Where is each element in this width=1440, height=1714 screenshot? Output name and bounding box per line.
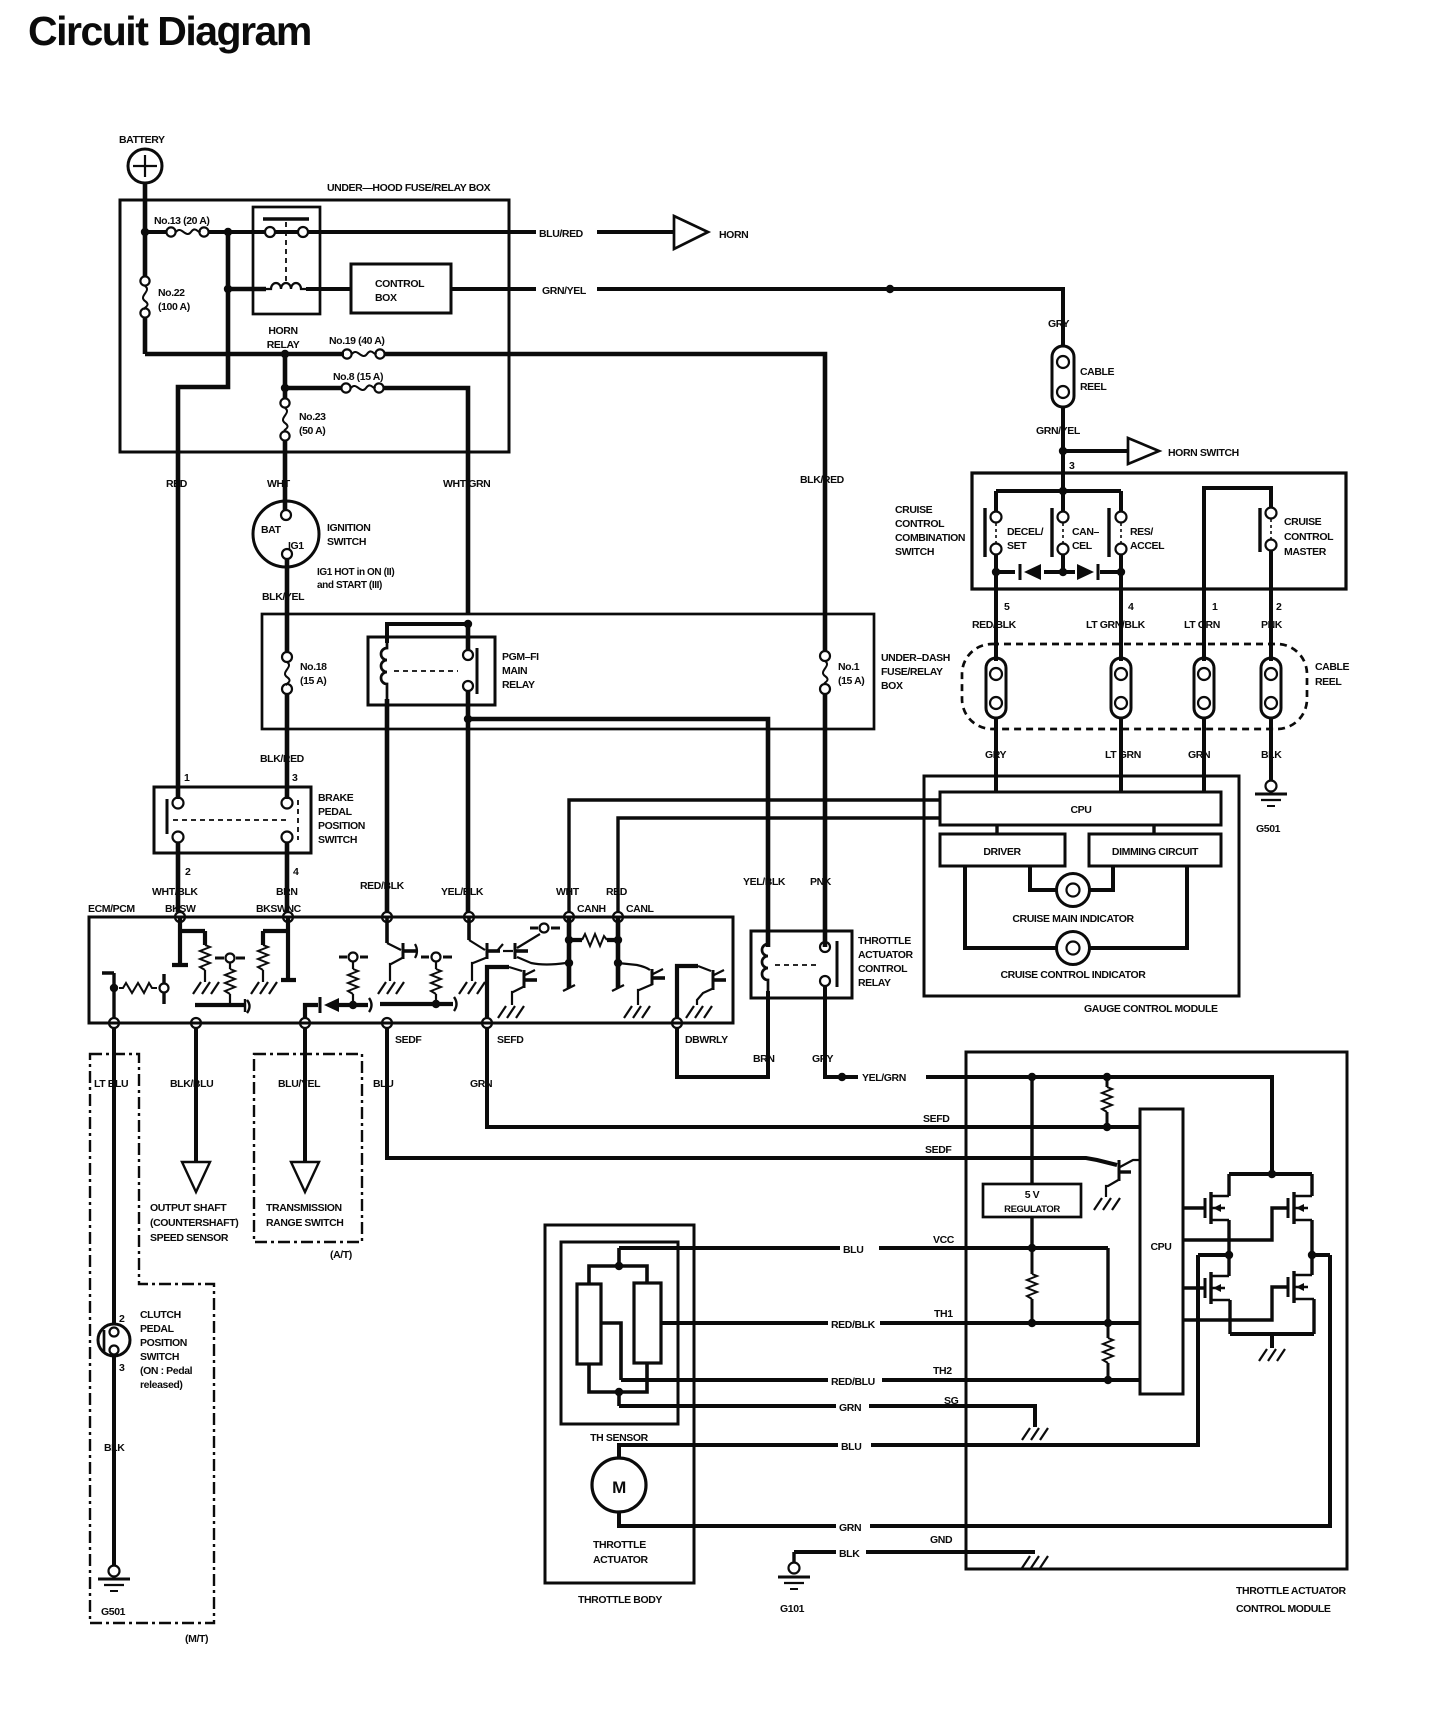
wire RED branch [178, 289, 228, 799]
wire SEFD from ecm [487, 1028, 1140, 1127]
ecm left input network [102, 973, 169, 1018]
wire BLU motor [619, 1255, 1198, 1458]
svg-text:(50 A): (50 A) [299, 425, 325, 437]
wire relay contact YEL/BLK down [466, 691, 471, 912]
label under-dash fuse/relay box [881, 652, 950, 692]
svg-text:RED/BLK: RED/BLK [831, 1319, 876, 1331]
svg-text:RELAY: RELAY [502, 679, 535, 691]
label cable reel [1315, 661, 1350, 688]
mosfet Q8 upper left [1205, 1174, 1229, 1255]
svg-text:ACTUATOR: ACTUATOR [593, 1554, 649, 1566]
junction diode node [349, 1001, 357, 1009]
svg-text:WHT: WHT [267, 478, 291, 490]
svg-text:TH SENSOR: TH SENSOR [590, 1432, 648, 1444]
svg-text:SEDF: SEDF [395, 1034, 422, 1046]
svg-text:RES/: RES/ [1130, 526, 1153, 538]
svg-text:HORN SWITCH: HORN SWITCH [1168, 447, 1239, 459]
wire gate LL [1183, 1286, 1205, 1289]
svg-text:3: 3 [1069, 460, 1075, 472]
resistor terminal sefd pull [380, 953, 457, 1012]
wire GRN SG [619, 1406, 1035, 1427]
svg-text:BOX: BOX [881, 680, 903, 692]
CPU gauge [940, 792, 1221, 825]
svg-text:GRN: GRN [1188, 749, 1210, 761]
svg-text:2: 2 [185, 866, 191, 878]
svg-text:4: 4 [293, 866, 299, 878]
A/T dash-dot box [254, 1054, 362, 1242]
cruise main indicator lamp [1012, 874, 1134, 926]
wire battery bus to No.19 [145, 352, 344, 357]
CPU throttle module [1140, 1109, 1183, 1394]
node YEL/BLK [464, 912, 474, 922]
wire driver to control indicator [965, 866, 1057, 948]
svg-text:REEL: REEL [1315, 676, 1342, 688]
transistor Q3 canh driver [503, 934, 566, 965]
svg-text:G101: G101 [780, 1603, 805, 1615]
cruise control indicator lamp [1001, 932, 1147, 982]
fuse No.23 (50 A) [280, 398, 326, 510]
junction th1 right [1104, 1319, 1112, 1327]
clutch pedal position switch S3 [98, 1309, 193, 1391]
svg-text:TH2: TH2 [933, 1365, 952, 1377]
svg-text:4: 4 [1128, 601, 1134, 613]
node SEFD [482, 1018, 492, 1028]
ECM/PCM box [88, 903, 733, 1023]
svg-text:UNDER—HOOD FUSE/RELAY BOX: UNDER—HOOD FUSE/RELAY BOX [327, 182, 491, 194]
diode D2 right [1077, 564, 1098, 580]
diode D3 ecm [305, 997, 372, 1018]
wire GRN motor [619, 1255, 1330, 1526]
svg-text:No.8 (15 A): No.8 (15 A) [333, 371, 383, 383]
svg-text:CONTROL: CONTROL [895, 518, 945, 530]
svg-text:LT BLU: LT BLU [94, 1078, 128, 1090]
svg-text:GRN: GRN [839, 1402, 861, 1414]
resistor sefd pullup [1102, 1077, 1112, 1127]
wire BLK to ground [112, 1356, 116, 1566]
TH sensor pot right [634, 1283, 661, 1363]
junction bridge left [1225, 1251, 1233, 1259]
wire hbridge top rail [1229, 1172, 1312, 1176]
wire dimming to control indicator [1089, 866, 1187, 948]
mosfet Q11 lower right [1288, 1255, 1314, 1334]
junction canl top [614, 936, 622, 944]
resistor th1-th2 [1103, 1323, 1113, 1380]
svg-text:RELAY: RELAY [858, 977, 891, 989]
svg-text:OUTPUT SHAFT: OUTPUT SHAFT [150, 1202, 227, 1214]
svg-text:BLU: BLU [841, 1441, 861, 1453]
svg-text:BLK/YEL: BLK/YEL [262, 591, 305, 603]
wire GRN/YEL control box to cable reel [451, 289, 1063, 346]
wire BLK gnd [794, 1550, 1035, 1554]
svg-text:DRIVER: DRIVER [983, 846, 1021, 858]
svg-text:YEL/GRN: YEL/GRN [862, 1072, 906, 1084]
svg-text:CLUTCH: CLUTCH [140, 1309, 181, 1321]
svg-text:(A/T): (A/T) [330, 1249, 352, 1261]
wire No.8 branch [283, 354, 288, 398]
svg-text:HORN: HORN [268, 325, 297, 337]
wire to horn switch [1063, 449, 1128, 453]
wire bridge right node [1312, 1253, 1330, 1257]
svg-text:RED: RED [606, 886, 628, 898]
node CANL [613, 912, 623, 922]
wire sensor bottom bus [589, 1363, 647, 1406]
junction bus dots [992, 568, 1000, 576]
svg-text:REEL: REEL [1080, 381, 1107, 393]
transistor Q4 canl driver [618, 963, 665, 1018]
junction sefd resistor [432, 1000, 440, 1008]
svg-text:LT GRN: LT GRN [1184, 619, 1220, 631]
svg-text:PEDAL: PEDAL [140, 1323, 175, 1335]
svg-text:CONTROL: CONTROL [1284, 531, 1334, 543]
wire SEDF from ecm [387, 1028, 1117, 1165]
svg-text:IGNITION: IGNITION [327, 522, 370, 534]
svg-text:released): released) [140, 1379, 183, 1391]
fuse No.19 (40 A) [329, 335, 825, 947]
svg-text:RED: RED [166, 478, 188, 490]
svg-text:SEFD: SEFD [923, 1113, 950, 1125]
mosfet Q10 lower left [1205, 1255, 1230, 1334]
svg-text:G501: G501 [101, 1606, 126, 1618]
wire lower bus [996, 554, 1121, 572]
svg-text:LT GRN: LT GRN [1105, 749, 1141, 761]
svg-text:RED/BLK: RED/BLK [972, 619, 1017, 631]
DBWRLY transistor Q6 [677, 966, 726, 1018]
throttle actuator control module box [966, 1052, 1347, 1615]
svg-text:CRUISE: CRUISE [1284, 516, 1322, 528]
svg-text:YEL/BLK: YEL/BLK [743, 876, 786, 888]
transistor Q2 yel/blk [459, 917, 503, 994]
node BKSWNC [283, 912, 293, 922]
ground G501 left [98, 1566, 130, 1619]
node BKSW [175, 912, 185, 922]
svg-text:BLK/RED: BLK/RED [800, 474, 845, 486]
svg-text:BRAKE: BRAKE [318, 792, 354, 804]
svg-text:1: 1 [184, 772, 190, 784]
svg-text:SWITCH: SWITCH [318, 834, 357, 846]
PGM-FI main relay U2 [368, 637, 539, 705]
junction sensor top [615, 1262, 623, 1270]
wire hbridge bottom rail [1230, 1334, 1314, 1348]
svg-text:BLU/YEL: BLU/YEL [278, 1078, 321, 1090]
node RED/BLK [382, 912, 392, 922]
wire pin2 PNK [1269, 550, 1273, 661]
junction bridge right [1308, 1251, 1316, 1259]
svg-text:5: 5 [1004, 601, 1010, 613]
svg-text:RED/BLU: RED/BLU [831, 1376, 875, 1388]
svg-text:THROTTLE BODY: THROTTLE BODY [578, 1594, 662, 1606]
under-dash fuse/relay box dashed [962, 644, 1307, 729]
throttle body box [545, 1225, 694, 1606]
junction canh mid [565, 959, 573, 967]
node DBWRLY [672, 1018, 682, 1028]
under-hood fuse/relay box [120, 182, 509, 452]
svg-text:SEFD: SEFD [497, 1034, 524, 1046]
svg-text:PNK: PNK [810, 876, 832, 888]
5V regulator [983, 1184, 1081, 1217]
wire gate UL [1183, 1206, 1205, 1209]
svg-text:(ON : Pedal: (ON : Pedal [140, 1365, 193, 1377]
svg-text:GND: GND [930, 1534, 953, 1546]
svg-text:(COUNTERSHAFT): (COUNTERSHAFT) [150, 1217, 238, 1229]
M/T dash-dot box [90, 1054, 214, 1623]
wire BLK to G501 [1269, 718, 1273, 780]
svg-text:No.18: No.18 [300, 661, 327, 673]
svg-text:IG1 HOT in ON (II): IG1 HOT in ON (II) [317, 567, 394, 578]
svg-text:CRUISE: CRUISE [895, 504, 933, 516]
svg-text:2: 2 [119, 1313, 125, 1325]
brake pedal position switch S2 [154, 787, 365, 853]
svg-text:No.1: No.1 [838, 661, 860, 673]
fuse No.8 (15 A) [285, 371, 468, 614]
svg-text:No.22: No.22 [158, 287, 185, 299]
pullup terminal q3 [530, 924, 560, 933]
transistor Q7 sedf input [1094, 1160, 1140, 1210]
svg-text:DBWRLY: DBWRLY [685, 1034, 728, 1046]
svg-text:IG1: IG1 [288, 540, 304, 552]
svg-text:CRUISE CONTROL INDICATOR: CRUISE CONTROL INDICATOR [1001, 969, 1147, 981]
svg-text:BRN: BRN [753, 1053, 775, 1065]
ground G101 [778, 1552, 810, 1615]
wire coil to control box [306, 287, 351, 291]
wire LT GRN to CPU [1119, 718, 1123, 792]
svg-text:RELAY: RELAY [267, 339, 300, 351]
junction canl mid [614, 959, 622, 967]
wire RED CANL riser [618, 818, 940, 912]
ignition switch [253, 501, 370, 567]
junction coil node [224, 285, 232, 293]
wire BLU/YEL to range switch [303, 1028, 307, 1162]
transmission range switch arrow [266, 1162, 343, 1229]
svg-text:and START (III): and START (III) [317, 580, 382, 591]
junction battery node [141, 228, 149, 236]
junction left [110, 984, 118, 992]
svg-text:SG: SG [944, 1395, 959, 1407]
junction YEL/BLK branch [464, 715, 472, 723]
wire YEL/BLK branch to throttle relay [468, 719, 768, 947]
note IG1 HOT [317, 567, 394, 591]
svg-text:BLU: BLU [843, 1244, 863, 1256]
wire dimming to main indicator [1089, 866, 1113, 890]
svg-text:(100 A): (100 A) [158, 301, 190, 313]
svg-text:BLK: BLK [1261, 749, 1282, 761]
node ecm bottom blk/blu [191, 1018, 201, 1028]
svg-text:CABLE: CABLE [1315, 661, 1350, 673]
svg-text:POSITION: POSITION [318, 820, 365, 832]
svg-text:CONTROL: CONTROL [375, 278, 425, 290]
svg-text:SWITCH: SWITCH [895, 546, 934, 558]
svg-text:REGULATOR: REGULATOR [1004, 1204, 1060, 1215]
svg-text:FUSE/RELAY: FUSE/RELAY [881, 666, 943, 678]
wire to horn relay coil [228, 232, 266, 289]
svg-text:BLK/BLU: BLK/BLU [170, 1078, 213, 1090]
wire GRN/YEL cable reel to horn switch node [1061, 407, 1065, 473]
svg-text:BKSW: BKSW [165, 903, 196, 915]
wire BRN pin4 to ECM [285, 842, 290, 912]
svg-text:(M/T): (M/T) [185, 1633, 208, 1645]
wire WHT/BLK pin2 to ECM [176, 842, 181, 912]
svg-text:LT GRN/BLK: LT GRN/BLK [1086, 619, 1146, 631]
wire GRY relay contact down [825, 986, 858, 1077]
svg-text:DIMMING CIRCUIT: DIMMING CIRCUIT [1112, 846, 1199, 858]
switch CAN-CEL [1052, 508, 1100, 557]
svg-text:BAT: BAT [261, 524, 282, 536]
transistor Q1 red/blk [378, 917, 417, 994]
svg-text:(15 A): (15 A) [838, 675, 864, 687]
wire GRY to CPU [994, 718, 998, 792]
svg-text:CANH: CANH [577, 903, 606, 915]
driver block [940, 834, 1065, 866]
switch RES/ACCEL [1109, 508, 1165, 557]
svg-text:YEL/BLK: YEL/BLK [441, 886, 484, 898]
wire pin5 RED/BLK [994, 572, 998, 661]
ground module gnd [1022, 1556, 1048, 1568]
BKSW internal branch [172, 917, 219, 994]
dimming circuit block [1089, 834, 1221, 866]
BKSWNC internal branch [251, 917, 296, 994]
svg-text:COMBINATION: COMBINATION [895, 532, 965, 544]
svg-text:GAUGE CONTROL MODULE: GAUGE CONTROL MODULE [1084, 1003, 1218, 1015]
svg-text:SEDF: SEDF [925, 1144, 952, 1156]
svg-text:CEL: CEL [1072, 540, 1093, 552]
wire CANH internal [563, 917, 575, 991]
svg-text:GRN/YEL: GRN/YEL [1036, 425, 1081, 437]
svg-text:WHT/GRN: WHT/GRN [443, 478, 490, 490]
junction yel/grn resistor [1103, 1073, 1111, 1081]
wire RED/BLK TH1 [661, 1321, 1140, 1325]
svg-text:PGM–FI: PGM–FI [502, 651, 539, 663]
svg-text:BLU: BLU [373, 1078, 393, 1090]
svg-text:BLU/RED: BLU/RED [539, 228, 584, 240]
svg-text:CRUISE MAIN INDICATOR: CRUISE MAIN INDICATOR [1012, 913, 1134, 925]
svg-text:HORN: HORN [719, 229, 748, 241]
fuse No.22 (100 A) [140, 232, 189, 354]
svg-text:PEDAL: PEDAL [318, 806, 353, 818]
svg-text:DECEL/: DECEL/ [1007, 526, 1044, 538]
wire pin1 LT GRN [1202, 512, 1206, 661]
junction WHT/GRN coil [464, 620, 472, 628]
svg-text:No.23: No.23 [299, 411, 326, 423]
wire WHT/GRN to contact [466, 624, 471, 650]
wire BLK/BLU to speed sensor [194, 1028, 198, 1162]
svg-text:POSITION: POSITION [140, 1337, 187, 1349]
cable reel connector c1 [986, 658, 1006, 718]
SEFD output transistor Q5 [487, 967, 537, 1018]
wire WHT CANH riser [569, 800, 940, 912]
wire GRN to CPU [1202, 718, 1206, 792]
horn switch arrow [1128, 438, 1239, 464]
svg-text:RED/BLK: RED/BLK [360, 880, 405, 892]
svg-text:5 V: 5 V [1025, 1189, 1040, 1201]
throttle actuator motor M1 [592, 1458, 649, 1566]
svg-text:BLK/RED: BLK/RED [260, 753, 305, 765]
junction node horn relay branch [224, 228, 232, 236]
gauge control module box [924, 776, 1239, 1015]
cable reel connector c2 [1111, 658, 1131, 718]
wire bridge left node [1198, 1253, 1229, 1257]
wire sensor top bus [589, 1248, 647, 1284]
svg-text:CABLE: CABLE [1080, 366, 1115, 378]
svg-text:CPU: CPU [1151, 1241, 1172, 1253]
resistor vcc-th1 [1027, 1248, 1037, 1323]
svg-text:BATTERY: BATTERY [119, 134, 165, 146]
junction GRN/YEL [886, 285, 894, 293]
wire BLU VCC [619, 1246, 1108, 1250]
ground sg [1022, 1428, 1048, 1440]
junction No.19/No.8 branch [281, 350, 289, 358]
svg-text:Circuit Diagram: Circuit Diagram [28, 8, 311, 54]
svg-text:THROTTLE ACTUATOR: THROTTLE ACTUATOR [1236, 1585, 1346, 1597]
svg-text:RANGE SWITCH: RANGE SWITCH [266, 1217, 343, 1229]
switch CRUISE CONTROL MASTER [1204, 488, 1334, 558]
svg-text:UNDER–DASH: UNDER–DASH [881, 652, 950, 664]
wire vcc drop [1106, 1248, 1109, 1323]
svg-text:SWITCH: SWITCH [327, 536, 366, 548]
wire pin4 LT GRN/BLK [1119, 572, 1123, 661]
svg-text:(15 A): (15 A) [300, 675, 326, 687]
svg-text:GRY: GRY [985, 749, 1007, 761]
svg-text:CONTROL MODULE: CONTROL MODULE [1236, 1603, 1331, 1615]
svg-text:BRN: BRN [276, 886, 298, 898]
wire relay coil top to WHT/GRN [387, 624, 468, 643]
junction YEL/GRN [838, 1073, 846, 1081]
svg-text:CONTROL: CONTROL [858, 963, 908, 975]
junction th2 [1104, 1376, 1112, 1384]
svg-text:TRANSMISSION: TRANSMISSION [266, 1202, 342, 1214]
wire gate LR [1183, 1287, 1288, 1320]
throttle actuator control relay [751, 931, 914, 998]
battery B1 [119, 134, 165, 183]
svg-text:3: 3 [119, 1362, 125, 1374]
wire CPU to dimming [1152, 825, 1155, 834]
wire BRN relay coil to DBWRLY [677, 991, 768, 1077]
junction th1 left [1028, 1319, 1036, 1327]
output shaft speed sensor arrow [150, 1162, 238, 1244]
wire BLK/RED to brake switch pin 3 [285, 694, 290, 799]
svg-text:2: 2 [1276, 601, 1282, 613]
cruise control combination switch box [895, 473, 1346, 589]
wire horn relay contact to BLU/RED [275, 230, 674, 234]
svg-text:No.19 (40 A): No.19 (40 A) [329, 335, 385, 347]
svg-text:1: 1 [1212, 601, 1218, 613]
mosfet Q9 upper right [1288, 1174, 1312, 1255]
svg-text:BKSWNC: BKSWNC [256, 903, 302, 915]
wire relay coil bottom RED/BLK [385, 699, 390, 912]
node ecm bottom lt blu [109, 1018, 119, 1028]
wire driver to main indicator [1030, 866, 1057, 890]
svg-text:CAN–: CAN– [1072, 526, 1100, 538]
svg-text:ACCEL: ACCEL [1130, 540, 1165, 552]
wire RED/BLU TH2 [621, 1378, 1140, 1382]
svg-text:THROTTLE: THROTTLE [858, 935, 911, 947]
node CANH [564, 912, 574, 922]
wire YEL/GRN into module [926, 1077, 1272, 1174]
svg-text:3: 3 [292, 772, 298, 784]
junction horn switch node [1059, 447, 1067, 455]
TH sensor pot left [577, 1284, 601, 1364]
horn relay [253, 207, 320, 351]
wire CANL internal [612, 917, 624, 991]
wire pin3 into switch [1061, 451, 1065, 512]
svg-text:GRY: GRY [1048, 318, 1070, 330]
svg-text:GRY: GRY [812, 1053, 834, 1065]
wire BLK/YEL [285, 559, 290, 652]
svg-text:MASTER: MASTER [1284, 546, 1327, 558]
junction top rail [1268, 1170, 1276, 1178]
svg-text:M: M [612, 1478, 626, 1497]
fuse No.18 (15 A) [282, 652, 327, 694]
svg-text:No.13 (20 A): No.13 (20 A) [154, 215, 210, 227]
junction sefd resistor [1103, 1123, 1111, 1131]
